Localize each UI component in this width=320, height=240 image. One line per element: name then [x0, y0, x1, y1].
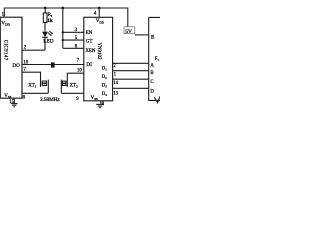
wire top VDD rail — [4, 8, 128, 27]
IC U1 CIC9147 box — [0, 17, 22, 98]
LED D1 — [42, 36, 48, 38]
svg-text:YN9102: YN9102 — [96, 43, 101, 61]
svg-text:A: A — [150, 63, 154, 68]
svg-text:5V: 5V — [125, 29, 132, 35]
wire pin10 to XT2 — [67, 73, 84, 87]
wire D1 to A — [113, 62, 149, 64]
ground right chip pin8 — [100, 101, 102, 104]
component on DO wire — [51, 62, 55, 67]
svg-text:VSS: VSS — [91, 96, 98, 101]
mark continuation check — [154, 96, 160, 102]
svg-text:DI: DI — [86, 62, 92, 68]
svg-text:DO: DO — [12, 63, 20, 69]
LED arrow lines — [48, 33, 51, 36]
IC U2 YN9102 box — [84, 17, 113, 101]
svg-text:XT1: XT1 — [28, 84, 37, 89]
crystal XT1 bar — [42, 83, 46, 85]
resistor R1 — [44, 8, 46, 13]
LED D1 triangle — [42, 32, 48, 37]
wire EN/GT/XEN column — [62, 8, 64, 48]
svg-text:R1: R1 — [48, 13, 53, 18]
svg-text:F1: F1 — [155, 57, 160, 62]
svg-text:D: D — [150, 89, 154, 94]
svg-text:LED: LED — [43, 40, 53, 45]
svg-text:16: 16 — [23, 61, 28, 66]
wire pin3 — [63, 31, 84, 33]
svg-text:D4: D4 — [102, 92, 107, 97]
wire pin7 to XT1 — [22, 72, 41, 87]
crystal XT1 — [42, 81, 46, 85]
wire pin8 — [22, 92, 48, 94]
wire pin4 — [98, 8, 100, 17]
wire pin5 — [63, 39, 84, 41]
svg-text:XEN: XEN — [85, 49, 96, 54]
LED arrows — [50, 34, 52, 36]
wire pin2 — [22, 49, 45, 51]
svg-text:C: C — [150, 80, 153, 85]
svg-text:D1: D1 — [102, 67, 107, 72]
connector F1 box — [149, 17, 160, 100]
svg-text:1k: 1k — [47, 19, 53, 24]
svg-text:3.58MHz: 3.58MHz — [40, 97, 60, 103]
svg-text:VSS: VSS — [4, 94, 11, 99]
crystal XT2 bar — [62, 83, 66, 85]
svg-text:CIC9147: CIC9147 — [2, 40, 7, 61]
svg-text:VDD: VDD — [96, 19, 105, 24]
svg-text:14: 14 — [113, 81, 118, 86]
svg-text:E: E — [151, 35, 155, 41]
ground left chip pin15 — [13, 98, 15, 103]
node 5V terminal box — [124, 27, 135, 34]
svg-text:XT2: XT2 — [70, 84, 79, 89]
svg-text:10: 10 — [77, 68, 82, 73]
wire D4 to D — [113, 87, 149, 89]
wire D3 to C — [113, 78, 149, 80]
svg-text:13: 13 — [113, 92, 118, 97]
wire pin9 — [61, 92, 84, 94]
svg-text:D3: D3 — [102, 84, 107, 89]
svg-text:D2: D2 — [102, 75, 107, 80]
wire 5V to E — [135, 34, 149, 36]
wire R1 to LED — [44, 22, 46, 31]
svg-text:15: 15 — [9, 100, 15, 105]
junction dots — [42, 7, 100, 85]
svg-text:EN: EN — [86, 31, 93, 36]
wire D2 to B — [113, 70, 149, 72]
crystal XT2 — [62, 81, 66, 85]
svg-text:GT: GT — [86, 39, 93, 44]
wire pin6 — [63, 47, 84, 49]
wire DO to DI — [22, 64, 84, 66]
